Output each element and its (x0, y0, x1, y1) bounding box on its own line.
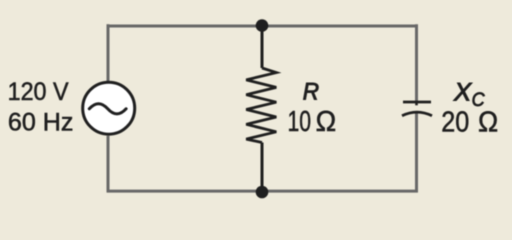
svg-text:R: R (303, 79, 319, 106)
svg-text:60 Hz: 60 Hz (8, 108, 74, 136)
svg-text:10: 10 (288, 106, 312, 138)
svg-text:Ω: Ω (316, 106, 337, 138)
svg-text:120 V: 120 V (8, 78, 69, 106)
svg-text:X: X (453, 78, 473, 106)
svg-text:20: 20 (441, 106, 469, 138)
svg-text:Ω: Ω (478, 106, 498, 138)
